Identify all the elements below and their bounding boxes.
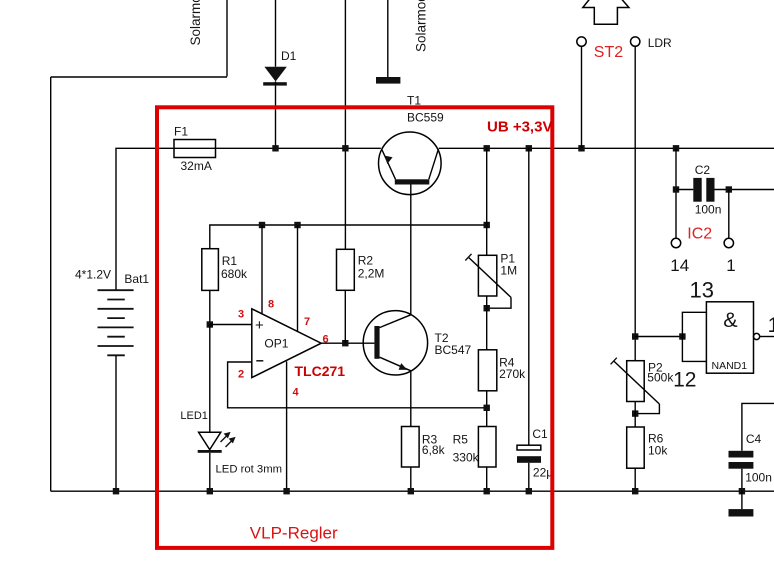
wire P1 to R4 bbox=[486, 296, 488, 350]
node pin4 on ground rail bbox=[283, 488, 289, 494]
svg-text:1M: 1M bbox=[500, 264, 517, 278]
svg-text:Solarmodul 2: Solarmodul 2 bbox=[413, 0, 428, 52]
svg-text:4: 4 bbox=[293, 387, 300, 399]
wire R2 bottom lead bbox=[344, 290, 346, 343]
wire solar module 2 minus vertical bbox=[387, 0, 389, 77]
potentiometer P1 bbox=[465, 254, 511, 308]
capacitor C4 bbox=[729, 451, 754, 491]
svg-text:Bat1: Bat1 bbox=[124, 272, 149, 286]
svg-text:7: 7 bbox=[304, 316, 310, 328]
wire +UB rail right segment bbox=[439, 147, 774, 149]
resistor R5 bbox=[478, 427, 496, 468]
wire R5 bottom to ground bbox=[486, 467, 488, 491]
svg-text:32mA: 32mA bbox=[181, 159, 212, 173]
node R1 / +input / LED1 bbox=[207, 321, 213, 327]
connector ST2 pin left bbox=[577, 37, 586, 46]
node R3 on ground rail bbox=[408, 488, 414, 494]
wire diode D1 to +UB rail bbox=[275, 86, 277, 149]
svg-text:&: & bbox=[723, 308, 737, 332]
node C1 on ground rail bbox=[526, 488, 532, 494]
svg-text:14: 14 bbox=[670, 256, 689, 275]
svg-text:BC559: BC559 bbox=[407, 111, 444, 125]
node P1 wiper junction bbox=[484, 305, 490, 311]
potentiometer P2 bbox=[611, 358, 660, 414]
wire solar module 1 horizontal to left bbox=[51, 76, 227, 78]
node P1 column on rail bbox=[484, 145, 490, 151]
node C1 column on rail bbox=[526, 145, 532, 151]
VLP-Regler red boundary box bbox=[157, 107, 552, 548]
wire R6 bottom to ground bbox=[634, 468, 636, 491]
resistor R2 bbox=[337, 249, 355, 290]
wire +input node to op-amp bbox=[210, 324, 252, 326]
svg-text:VLP-Regler: VLP-Regler bbox=[250, 524, 338, 543]
node C4 on ground rail bbox=[739, 488, 745, 494]
svg-text:IC2: IC2 bbox=[687, 226, 712, 243]
node op-amp pin7 tap bbox=[294, 222, 300, 228]
wire op-amp output pin 6 to T2 base bbox=[321, 342, 374, 344]
svg-text:D1: D1 bbox=[281, 49, 297, 63]
wire diode D1 top vertical bbox=[275, 0, 277, 67]
svg-text:LED1: LED1 bbox=[180, 410, 208, 422]
wire pin 1 drop bbox=[728, 190, 730, 239]
svg-text:BC547: BC547 bbox=[435, 343, 472, 357]
wire P2 to R6 bbox=[634, 402, 636, 428]
svg-text:680k: 680k bbox=[221, 267, 248, 281]
wire R1 bottom to +input node bbox=[209, 290, 211, 324]
wire solar module 2 plus vertical to R2 bbox=[344, 0, 346, 249]
svg-text:1: 1 bbox=[726, 256, 735, 275]
svg-text:C2: C2 bbox=[695, 163, 711, 177]
svg-text:100n: 100n bbox=[695, 202, 722, 216]
capacitor C1 electrolytic bbox=[517, 445, 541, 491]
svg-text:ST2: ST2 bbox=[594, 44, 623, 61]
svg-text:4*1.2V: 4*1.2V bbox=[75, 268, 111, 282]
svg-text:LDR: LDR bbox=[648, 36, 672, 50]
svg-text:TLC271: TLC271 bbox=[295, 363, 346, 379]
svg-text:11: 11 bbox=[768, 314, 774, 337]
node ST2 pin on rail bbox=[578, 145, 584, 151]
node LED1 on ground rail bbox=[207, 488, 213, 494]
NAND output inversion bubble bbox=[754, 333, 760, 339]
terminal bar solar module 2 minus bbox=[376, 77, 400, 84]
wire inner +UB distribution horizontal bbox=[210, 225, 487, 249]
node R5 on ground rail bbox=[484, 488, 490, 494]
fuse F1 bbox=[174, 140, 216, 158]
node R4/R5/feedback junction bbox=[484, 405, 490, 411]
svg-text:NAND1: NAND1 bbox=[712, 360, 748, 372]
node R2 bottom on output bbox=[342, 340, 348, 346]
connector IC2 pin 1 bbox=[724, 238, 733, 247]
diode D1 bbox=[263, 67, 287, 86]
wire +UB rail left segment bbox=[216, 147, 381, 149]
svg-text:100n: 100n bbox=[745, 471, 772, 485]
wire left outer vertical (minus bus) bbox=[50, 77, 52, 491]
wire ST2 pin to rail bbox=[581, 46, 583, 148]
node battery minus on ground rail bbox=[113, 488, 119, 494]
connector LDR pin bbox=[631, 37, 640, 46]
node R6 on ground rail bbox=[632, 488, 638, 494]
op-amp U1 OP1 triangle bbox=[252, 309, 321, 378]
svg-text:22µ: 22µ bbox=[533, 466, 553, 480]
svg-text:330k: 330k bbox=[453, 451, 480, 465]
svg-text:R1: R1 bbox=[222, 254, 238, 268]
wire C4 top from right edge bbox=[742, 403, 774, 450]
wire op-amp pin 2 feedback loop bbox=[228, 362, 487, 408]
wire op-amp pin 7 bbox=[297, 225, 299, 332]
svg-text:12: 12 bbox=[673, 369, 696, 392]
resistor R1 bbox=[202, 249, 219, 291]
svg-text:270k: 270k bbox=[499, 367, 526, 381]
wire solar module 1 vertical drop bbox=[226, 0, 228, 77]
NAND gate input bracket bbox=[682, 312, 706, 361]
node C2 right bbox=[726, 186, 732, 192]
svg-text:C1: C1 bbox=[532, 427, 548, 441]
wire op-amp pin 8 bbox=[261, 225, 263, 314]
svg-text:LED rot 3mm: LED rot 3mm bbox=[216, 464, 283, 476]
wire battery plus from fuse bbox=[116, 148, 174, 290]
svg-text:6,8k: 6,8k bbox=[422, 443, 446, 457]
resistor R4 bbox=[478, 350, 496, 391]
node NAND input / P2 top bbox=[632, 333, 638, 339]
node C2 left bbox=[673, 186, 679, 192]
svg-text:R5: R5 bbox=[453, 432, 469, 446]
wire LDR pin down to P2 node bbox=[634, 46, 636, 360]
node on bracket bbox=[679, 333, 685, 339]
svg-text:Solarmodul 1: Solarmodul 1 bbox=[188, 0, 203, 46]
connector arrow symbol bbox=[583, 0, 629, 24]
label op-amp minus input bbox=[256, 360, 263, 362]
resistor R6 bbox=[627, 427, 645, 468]
svg-text:R2: R2 bbox=[358, 254, 374, 268]
svg-text:F1: F1 bbox=[174, 125, 188, 139]
node P1 top tap bbox=[484, 222, 490, 228]
wire ground rail bottom bbox=[51, 490, 774, 492]
wire C2 column from rail bbox=[675, 148, 677, 238]
wire battery minus to ground rail bbox=[115, 355, 117, 491]
svg-text:13: 13 bbox=[690, 277, 714, 302]
svg-text:500k: 500k bbox=[647, 371, 674, 385]
node P2 wiper junction bbox=[632, 410, 638, 416]
wire R4 bottom to feedback node bbox=[486, 391, 488, 427]
NAND gate NAND1 bbox=[706, 302, 753, 373]
resistor R3 bbox=[402, 427, 420, 468]
LED1 bbox=[198, 325, 236, 492]
node solar2/R2 column on rail bbox=[342, 145, 348, 151]
wire R3 bottom to ground bbox=[410, 467, 412, 491]
svg-text:8: 8 bbox=[268, 299, 274, 311]
wire T2 emitter to R3 bbox=[410, 371, 412, 427]
svg-text:10k: 10k bbox=[648, 444, 668, 458]
wire node to NAND input bracket bbox=[635, 336, 682, 338]
wire P1 column from rail bbox=[486, 148, 488, 255]
wire op-amp pin 4 to ground bbox=[286, 362, 288, 492]
node C2/pin14 column on rail bbox=[673, 145, 679, 151]
svg-text:UB +3,3V: UB +3,3V bbox=[487, 119, 552, 136]
svg-text:C4: C4 bbox=[746, 432, 762, 446]
svg-text:3: 3 bbox=[238, 308, 244, 320]
svg-text:2: 2 bbox=[238, 369, 244, 381]
transistor T1 BC559 bbox=[379, 132, 442, 195]
node D1 on rail bbox=[272, 145, 278, 151]
svg-text:OP1: OP1 bbox=[264, 337, 288, 351]
capacitor C2 bbox=[676, 178, 774, 202]
node op-amp pin8 tap bbox=[259, 222, 265, 228]
svg-text:+: + bbox=[255, 317, 264, 334]
wire NAND output bbox=[760, 336, 774, 338]
ground terminal bar bbox=[729, 491, 754, 516]
svg-text:2,2M: 2,2M bbox=[358, 267, 385, 281]
transistor T2 BC547 bbox=[363, 311, 427, 375]
connector IC2 pin 14 bbox=[671, 238, 680, 247]
wire T1 base to T2 collector bbox=[410, 185, 412, 315]
wire C1 column from rail bbox=[528, 148, 530, 445]
battery Bat1 bbox=[98, 290, 134, 355]
